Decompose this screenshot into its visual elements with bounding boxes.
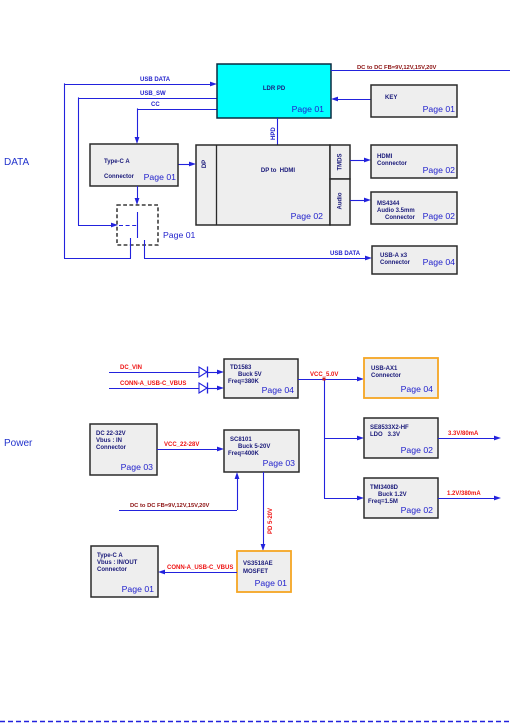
- page label Page 01 (switch): [163, 230, 196, 240]
- wire KEY to LDR PD: [331, 97, 371, 102]
- svg-text:DATA: DATA: [4, 157, 30, 168]
- svg-text:Audio 3.5mm: Audio 3.5mm: [377, 208, 415, 214]
- wire CONN-A_USB-C_VBUS: [109, 386, 224, 391]
- block Type-C A Connector top (Page 01): [90, 144, 178, 186]
- net label HPD: [271, 127, 277, 140]
- svg-text:TMI3408D: TMI3408D: [370, 485, 399, 491]
- dashed block CC switch (Page 01): [117, 205, 158, 245]
- section label DATA: [4, 157, 30, 168]
- svg-text:Connector: Connector: [97, 567, 128, 573]
- svg-text:Page 04: Page 04: [262, 385, 295, 395]
- net label 3.3V/80mA: [448, 431, 479, 437]
- svg-text:Page 01: Page 01: [292, 104, 325, 114]
- svg-text:Audio: Audio: [338, 192, 344, 209]
- svg-text:HDMI: HDMI: [377, 154, 393, 160]
- svg-text:Page 04: Page 04: [423, 257, 456, 267]
- svg-text:Page 02: Page 02: [423, 211, 456, 221]
- svg-text:Connector: Connector: [380, 260, 411, 266]
- wire VCC_22-28V: [157, 447, 224, 452]
- net label DC_VIN: [120, 365, 142, 371]
- net label VCC_22-28V: [164, 442, 199, 448]
- block MS4344 Audio 3.5mm Connector (Page 02): [371, 192, 457, 224]
- svg-text:Page 02: Page 02: [401, 445, 434, 455]
- svg-text:LDO 3.3V: LDO 3.3V: [370, 432, 400, 438]
- svg-text:3.3V/80mA: 3.3V/80mA: [448, 431, 479, 437]
- divider dashed line bottom: [0, 721, 510, 723]
- svg-text:DC to DC FB=9V,12V,15V,20V: DC to DC FB=9V,12V,15V,20V: [357, 65, 437, 71]
- wire Type-C A to DP: [178, 162, 196, 167]
- wire switch stub right: [144, 240, 146, 258]
- svg-text:Page 01: Page 01: [423, 104, 456, 114]
- wire switch internal vertical: [137, 212, 139, 238]
- svg-text:DC 22-32V: DC 22-32V: [96, 431, 126, 437]
- wire Type-C A down to CC switch: [135, 186, 140, 205]
- wire bottom bus USB DATA to USB-A x3: [144, 256, 372, 261]
- svg-text:Page 04: Page 04: [401, 384, 434, 394]
- svg-text:Connector: Connector: [371, 373, 402, 379]
- svg-text:SC8101: SC8101: [230, 437, 252, 443]
- svg-text:Page 01: Page 01: [144, 172, 177, 182]
- net label USB DATA: [140, 77, 171, 83]
- net label USB DATA (bottom): [330, 251, 361, 257]
- svg-text:MOSFET: MOSFET: [243, 569, 268, 575]
- svg-text:HPD: HPD: [271, 127, 277, 140]
- svg-text:LDR PD: LDR PD: [263, 86, 286, 92]
- net label VCC_5.0V: [310, 372, 338, 378]
- block U6 SC8101 Buck 5-20V (Page 03): [224, 430, 299, 472]
- wire switch stub left: [130, 238, 132, 258]
- svg-text:Freq=1.5M: Freq=1.5M: [368, 499, 398, 505]
- svg-text:Vbus : IN: Vbus : IN: [96, 438, 122, 444]
- wire 3.3V output: [438, 436, 501, 441]
- svg-text:Connector: Connector: [377, 161, 408, 167]
- wire DC to DC FB feedback: [119, 472, 239, 511]
- svg-text:Buck 1.2V: Buck 1.2V: [378, 492, 407, 498]
- wire PD 5-20V: [261, 472, 266, 551]
- svg-text:MS4344: MS4344: [377, 201, 400, 207]
- wire switch internal dashed horizontal: [119, 225, 137, 227]
- svg-text:VCC_22-28V: VCC_22-28V: [164, 442, 199, 448]
- svg-text:Freq=380K: Freq=380K: [228, 379, 260, 385]
- block USB-A x3 Connector (Page 04): [372, 246, 457, 274]
- block U3 TD1583 Buck 5V (Page 04): [224, 359, 298, 398]
- svg-text:Vbus : IN/OUT: Vbus : IN/OUT: [97, 560, 138, 566]
- svg-text:Buck 5-20V: Buck 5-20V: [238, 444, 270, 450]
- net label CONN-A_USB-C_VBUS: [120, 381, 186, 387]
- block U4 SE8533X2-HF LDO 3.3V (Page 02): [364, 418, 438, 458]
- svg-text:Page 01: Page 01: [255, 578, 288, 588]
- svg-text:Type-C A: Type-C A: [104, 159, 130, 165]
- wire bottom bus left: [64, 258, 131, 260]
- wire CC: [135, 108, 217, 144]
- wire 1.2V output: [438, 496, 501, 501]
- svg-text:VS3518AE: VS3518AE: [243, 561, 273, 567]
- svg-text:USB-AX1: USB-AX1: [371, 366, 398, 372]
- wire DC_VIN: [109, 370, 224, 375]
- block Type-C A Vbus IN/OUT Connector (Page 01): [91, 546, 158, 597]
- svg-text:Page 01: Page 01: [163, 230, 196, 240]
- svg-text:USB DATA: USB DATA: [140, 77, 171, 83]
- svg-text:USB DATA: USB DATA: [330, 251, 361, 257]
- wire VCC_5.0V branch to SE8533: [324, 436, 364, 441]
- wire VCC_5.0V branch to TMI3408D: [324, 496, 364, 501]
- svg-text:DC to DC FB=9V,12V,15V,20V: DC to DC FB=9V,12V,15V,20V: [130, 503, 210, 509]
- svg-text:Page 03: Page 03: [121, 462, 154, 472]
- block U2 DP to HDMI (Page 02): [196, 145, 330, 225]
- svg-text:Buck 5V: Buck 5V: [238, 372, 262, 378]
- svg-text:CC: CC: [151, 102, 160, 108]
- svg-text:PD 5-20V: PD 5-20V: [268, 508, 274, 534]
- net label DC to DC FB=9V,12V,15V,20V (mid): [130, 503, 210, 509]
- svg-text:KEY: KEY: [385, 95, 397, 101]
- svg-text:Type-C A: Type-C A: [97, 553, 123, 559]
- svg-text:Connector: Connector: [385, 215, 416, 221]
- wire TMDS to HDMI connector: [350, 158, 371, 163]
- wire VCC_5.0V: [298, 377, 364, 498]
- svg-text:USB_SW: USB_SW: [140, 91, 166, 97]
- block U5 TMI3408D Buck 1.2V (Page 02): [364, 478, 438, 518]
- pin block TMDS: [330, 145, 350, 179]
- block USB-AX1 Connector (Page 04): [364, 358, 438, 398]
- svg-text:Power: Power: [4, 438, 33, 449]
- svg-text:Connector: Connector: [96, 445, 127, 451]
- block Q1 VS3518AE MOSFET (Page 01): [237, 551, 291, 592]
- net label CONN-A_USB-C_VBUS (bottom): [167, 565, 233, 571]
- block HDMI Connector (Page 02): [371, 145, 457, 178]
- junction VCC_5.0V node: [323, 378, 326, 381]
- wire USB DATA into LDR PD: [64, 82, 217, 258]
- svg-text:DP to HDMI: DP to HDMI: [261, 168, 296, 174]
- svg-text:Connector: Connector: [104, 174, 135, 180]
- svg-text:CONN-A_USB-C_VBUS: CONN-A_USB-C_VBUS: [167, 565, 233, 571]
- wire Audio to MS4344: [350, 198, 371, 203]
- svg-text:TD1583: TD1583: [230, 365, 252, 371]
- svg-text:Page 02: Page 02: [291, 211, 324, 221]
- block KEY (Page 01): [371, 85, 457, 117]
- wire USB_SW: [78, 97, 217, 227]
- svg-text:TMDS: TMDS: [338, 154, 344, 171]
- net label 1.2V/380mA: [447, 491, 481, 497]
- svg-text:VCC_5.0V: VCC_5.0V: [310, 372, 338, 378]
- svg-text:Page 02: Page 02: [401, 505, 434, 515]
- block U1 LDR PD (Page 01): [217, 64, 331, 118]
- svg-text:DP: DP: [202, 160, 208, 168]
- block DC 22-32V Vbus IN Connector (Page 03): [90, 424, 157, 475]
- wire CONN-A_USB-C_VBUS (bottom): [158, 570, 237, 575]
- net label USB_SW: [140, 91, 166, 97]
- svg-text:Page 01: Page 01: [122, 584, 155, 594]
- wire DC to DC FB output: [331, 70, 510, 72]
- svg-text:Page 02: Page 02: [423, 165, 456, 175]
- svg-text:Page 03: Page 03: [263, 458, 296, 468]
- svg-text:CONN-A_USB-C_VBUS: CONN-A_USB-C_VBUS: [120, 381, 186, 387]
- pin block Audio: [330, 179, 350, 225]
- svg-text:USB-A x3: USB-A x3: [380, 253, 408, 259]
- net label CC: [151, 102, 160, 108]
- net label DC to DC FB=9V,12V,15V,20V (top): [357, 65, 437, 71]
- svg-text:DC_VIN: DC_VIN: [120, 365, 142, 371]
- svg-text:1.2V/380mA: 1.2V/380mA: [447, 491, 481, 497]
- svg-text:Freq=400K: Freq=400K: [228, 451, 260, 457]
- section label Power: [4, 438, 33, 449]
- svg-text:SE8533X2-HF: SE8533X2-HF: [370, 425, 409, 431]
- diode D2: [199, 383, 208, 394]
- net label PD 5-20V: [268, 508, 274, 534]
- diode D1: [199, 367, 208, 378]
- wire HPD: [277, 118, 279, 145]
